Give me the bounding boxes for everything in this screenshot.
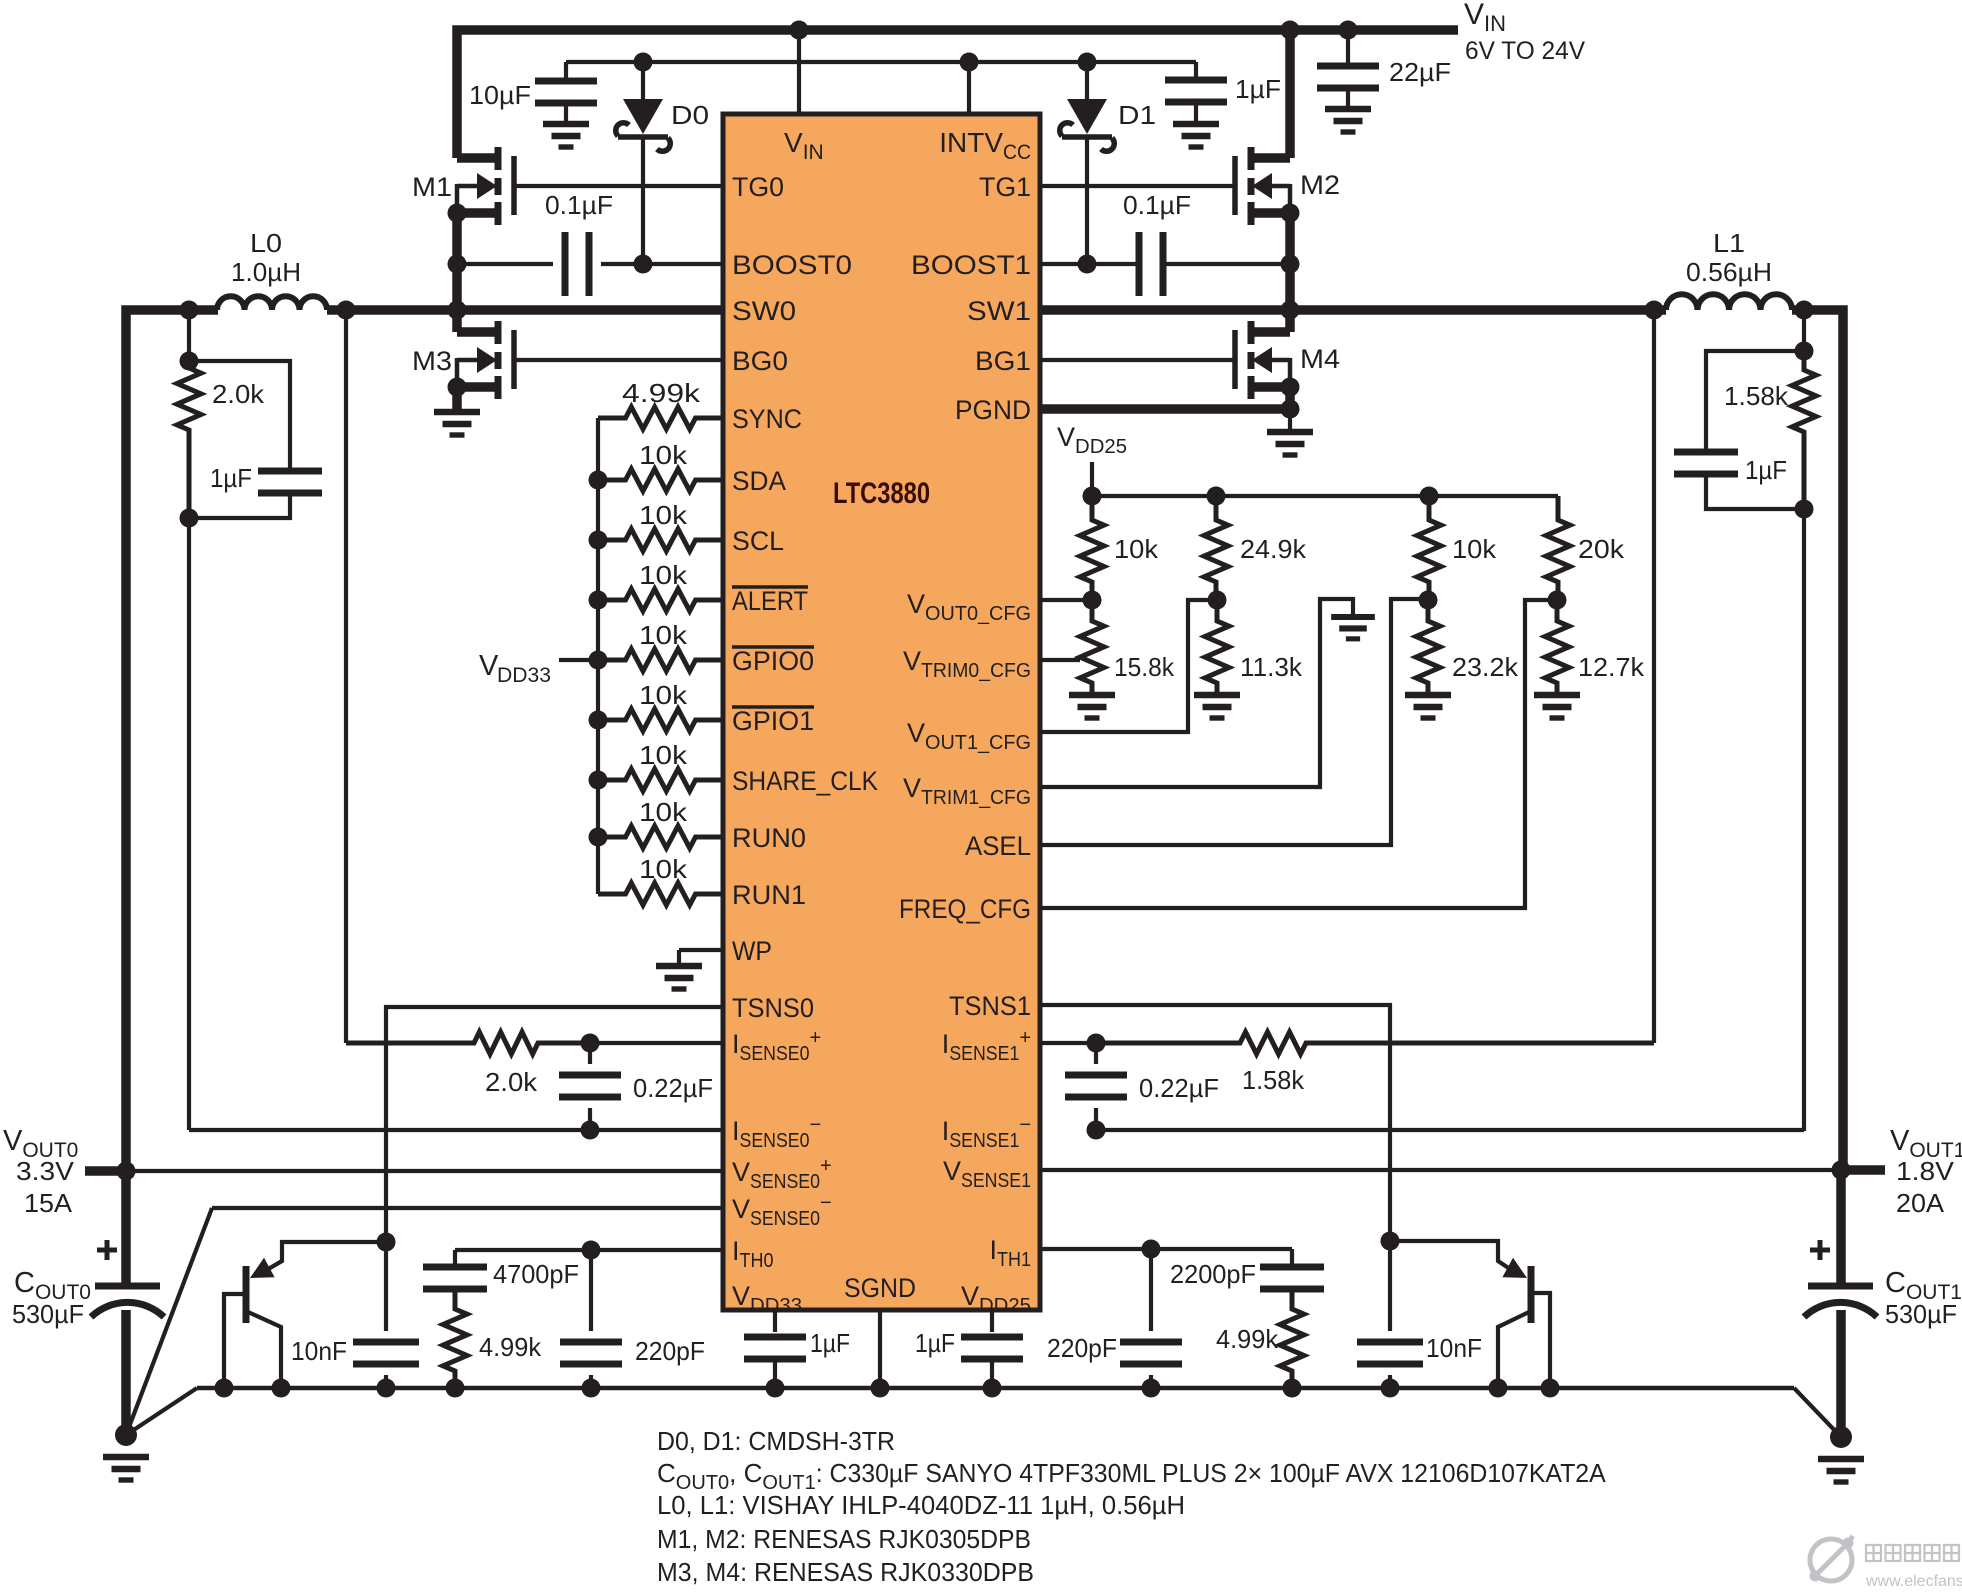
svg-text:M3: M3 xyxy=(412,346,452,376)
svg-text:M4: M4 xyxy=(1300,344,1340,374)
svg-text:SGND: SGND xyxy=(844,1273,916,1303)
svg-text:SCL: SCL xyxy=(732,526,784,556)
svg-text:15A: 15A xyxy=(24,1188,73,1218)
svg-text:1µF: 1µF xyxy=(210,463,252,493)
svg-text:2200pF: 2200pF xyxy=(1170,1259,1256,1289)
svg-text:0.1µF: 0.1µF xyxy=(545,190,613,220)
svg-text:4.99k: 4.99k xyxy=(1216,1324,1279,1354)
svg-text:3.3V: 3.3V xyxy=(16,1156,75,1186)
svg-text:V: V xyxy=(479,650,499,682)
svg-text:1.58k: 1.58k xyxy=(1724,381,1789,411)
svg-text:D0, D1: CMDSH-3TR: D0, D1: CMDSH-3TR xyxy=(657,1426,895,1456)
svg-text:10nF: 10nF xyxy=(1426,1333,1482,1363)
svg-text:10k: 10k xyxy=(639,440,688,470)
svg-text:M1, M2: RENESAS RJK0305DPB: M1, M2: RENESAS RJK0305DPB xyxy=(657,1524,1031,1554)
svg-text:0.22µF: 0.22µF xyxy=(633,1073,713,1103)
svg-text:L0: L0 xyxy=(250,228,282,258)
svg-text:1.0µH: 1.0µH xyxy=(231,257,301,287)
svg-text:0.1µF: 0.1µF xyxy=(1123,190,1191,220)
svg-text:TG1: TG1 xyxy=(979,172,1031,202)
svg-text:12.7k: 12.7k xyxy=(1578,652,1645,682)
svg-text:GPIO1: GPIO1 xyxy=(732,706,814,736)
svg-text:L0, L1: VISHAY IHLP-4040DZ-11: L0, L1: VISHAY IHLP-4040DZ-11 1µH, 0.56µ… xyxy=(657,1490,1185,1520)
svg-text:D1: D1 xyxy=(1118,100,1156,130)
svg-text:1.8V: 1.8V xyxy=(1896,1156,1955,1186)
svg-text:ALERT: ALERT xyxy=(732,586,808,616)
svg-text:SYNC: SYNC xyxy=(732,404,802,434)
svg-text:SHARE_CLK: SHARE_CLK xyxy=(732,766,878,796)
svg-text:BOOST0: BOOST0 xyxy=(732,250,852,280)
svg-text:10k: 10k xyxy=(1452,534,1497,564)
svg-text:2.0k: 2.0k xyxy=(485,1067,538,1097)
svg-text:D0: D0 xyxy=(671,100,709,130)
svg-text:10k: 10k xyxy=(639,680,688,710)
svg-text:23.2k: 23.2k xyxy=(1452,652,1519,682)
svg-text:10k: 10k xyxy=(639,620,688,650)
svg-text:10k: 10k xyxy=(1114,534,1159,564)
svg-text:1µF: 1µF xyxy=(1745,455,1787,485)
svg-text:530µF: 530µF xyxy=(12,1299,84,1329)
svg-text:BOOST1: BOOST1 xyxy=(911,250,1031,280)
svg-text:GPIO0: GPIO0 xyxy=(732,646,814,676)
svg-text:10nF: 10nF xyxy=(291,1336,347,1366)
svg-text:DD33: DD33 xyxy=(497,664,551,687)
svg-text:4.99k: 4.99k xyxy=(622,378,701,408)
svg-text:0.22µF: 0.22µF xyxy=(1139,1073,1219,1103)
svg-text:SW1: SW1 xyxy=(967,296,1031,326)
svg-text:1µF: 1µF xyxy=(810,1328,850,1358)
svg-text:BG1: BG1 xyxy=(975,346,1031,376)
svg-text:M1: M1 xyxy=(412,172,452,202)
svg-text:PGND: PGND xyxy=(955,395,1031,425)
svg-text:SDA: SDA xyxy=(732,466,786,496)
svg-text:4.99k: 4.99k xyxy=(479,1332,542,1362)
svg-text:2.0k: 2.0k xyxy=(212,379,265,409)
svg-text:SW0: SW0 xyxy=(732,296,796,326)
svg-text:220pF: 220pF xyxy=(635,1336,705,1366)
svg-text:www.elecfans.com: www.elecfans.com xyxy=(1865,1573,1962,1589)
svg-text:BG0: BG0 xyxy=(732,346,788,376)
svg-text:0.56µH: 0.56µH xyxy=(1686,257,1772,287)
svg-text:11.3k: 11.3k xyxy=(1240,652,1303,682)
svg-text:L1: L1 xyxy=(1713,228,1745,258)
svg-text:1.58k: 1.58k xyxy=(1242,1065,1305,1095)
svg-text:TSNS1: TSNS1 xyxy=(949,991,1031,1021)
svg-text:4700pF: 4700pF xyxy=(493,1259,579,1289)
svg-text:ASEL: ASEL xyxy=(965,831,1031,861)
svg-text:10k: 10k xyxy=(639,797,688,827)
svg-text:LTC3880: LTC3880 xyxy=(833,477,930,510)
svg-text:10k: 10k xyxy=(639,500,688,530)
svg-text:WP: WP xyxy=(732,936,772,966)
svg-text:10k: 10k xyxy=(639,560,688,590)
svg-text:20A: 20A xyxy=(1896,1188,1945,1218)
svg-text:1µF: 1µF xyxy=(1235,74,1281,104)
svg-text:10k: 10k xyxy=(639,854,688,884)
svg-text:6V TO 24V: 6V TO 24V xyxy=(1465,37,1585,65)
svg-text:22µF: 22µF xyxy=(1389,57,1451,87)
svg-text:RUN1: RUN1 xyxy=(732,880,806,910)
svg-text:24.9k: 24.9k xyxy=(1240,534,1307,564)
svg-text:FREQ_CFG: FREQ_CFG xyxy=(899,894,1031,924)
svg-text:TG0: TG0 xyxy=(732,172,784,202)
svg-text:1µF: 1µF xyxy=(915,1328,955,1358)
svg-text:M2: M2 xyxy=(1300,170,1340,200)
svg-text:220pF: 220pF xyxy=(1047,1333,1117,1363)
svg-text:10µF: 10µF xyxy=(469,80,531,110)
svg-text:15.8k: 15.8k xyxy=(1114,652,1175,682)
svg-text:TSNS0: TSNS0 xyxy=(732,993,814,1023)
svg-text:RUN0: RUN0 xyxy=(732,823,806,853)
svg-text:20k: 20k xyxy=(1578,534,1625,564)
svg-text:M3, M4: RENESAS RJK0330DPB: M3, M4: RENESAS RJK0330DPB xyxy=(657,1557,1034,1587)
svg-text:10k: 10k xyxy=(639,740,688,770)
svg-text:530µF: 530µF xyxy=(1885,1299,1957,1329)
